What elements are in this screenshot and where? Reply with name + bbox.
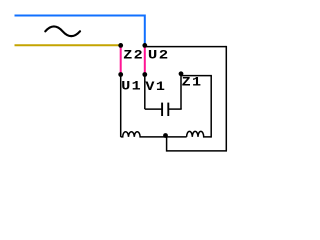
svg-text:U2: U2 xyxy=(148,49,170,63)
terminal Z1 xyxy=(179,71,184,76)
capacitor C plate left xyxy=(161,103,163,116)
link bar Z2-U1 (magenta) xyxy=(120,45,122,74)
label U1 xyxy=(121,79,142,94)
label U2 xyxy=(148,49,170,63)
label Z2 xyxy=(123,48,144,63)
label Z1 xyxy=(182,76,203,91)
label V1 xyxy=(145,80,166,95)
capacitor C plate right xyxy=(167,103,169,116)
svg-text:Z2: Z2 xyxy=(123,48,144,63)
inductor: auxiliary winding (right coil) xyxy=(187,131,212,137)
svg-text:V1: V1 xyxy=(145,80,166,95)
terminal V1 xyxy=(142,72,147,77)
wire: V1 down to capacitor xyxy=(144,75,146,110)
wire: Z1 down to capacitor xyxy=(180,75,182,109)
wire: stub from outer loop up to junction xyxy=(166,137,168,152)
wire: U1 down to main winding xyxy=(120,75,122,137)
svg-text:U1: U1 xyxy=(121,79,142,94)
terminal Z2 xyxy=(118,43,123,48)
wire: yellow neutral conductor from source to Z2 xyxy=(15,44,120,46)
inductor: main winding (left coil) xyxy=(121,132,166,137)
wire: Z1 horizontal to right riser xyxy=(181,75,212,77)
junction node (windings common point) xyxy=(163,133,168,138)
wire: right riser up from aux winding xyxy=(210,76,212,138)
ac source sine symbol xyxy=(45,26,80,36)
link bar U2-V1 (magenta) xyxy=(144,45,146,74)
svg-text:Z1: Z1 xyxy=(182,76,203,91)
terminal U2 xyxy=(142,43,147,48)
wire: outer loop bottom horizontal xyxy=(167,150,227,152)
wire: capacitor right lead xyxy=(168,108,181,110)
terminal U1 xyxy=(118,72,123,77)
wire: blue phase conductor from source to U2 xyxy=(15,16,145,45)
wire: capacitor left lead xyxy=(145,108,162,110)
wire: junction to right coil xyxy=(166,136,187,138)
wire: outer loop right vertical xyxy=(225,46,227,151)
wire: U2 to outer right side (top of outer loop) xyxy=(145,46,227,48)
